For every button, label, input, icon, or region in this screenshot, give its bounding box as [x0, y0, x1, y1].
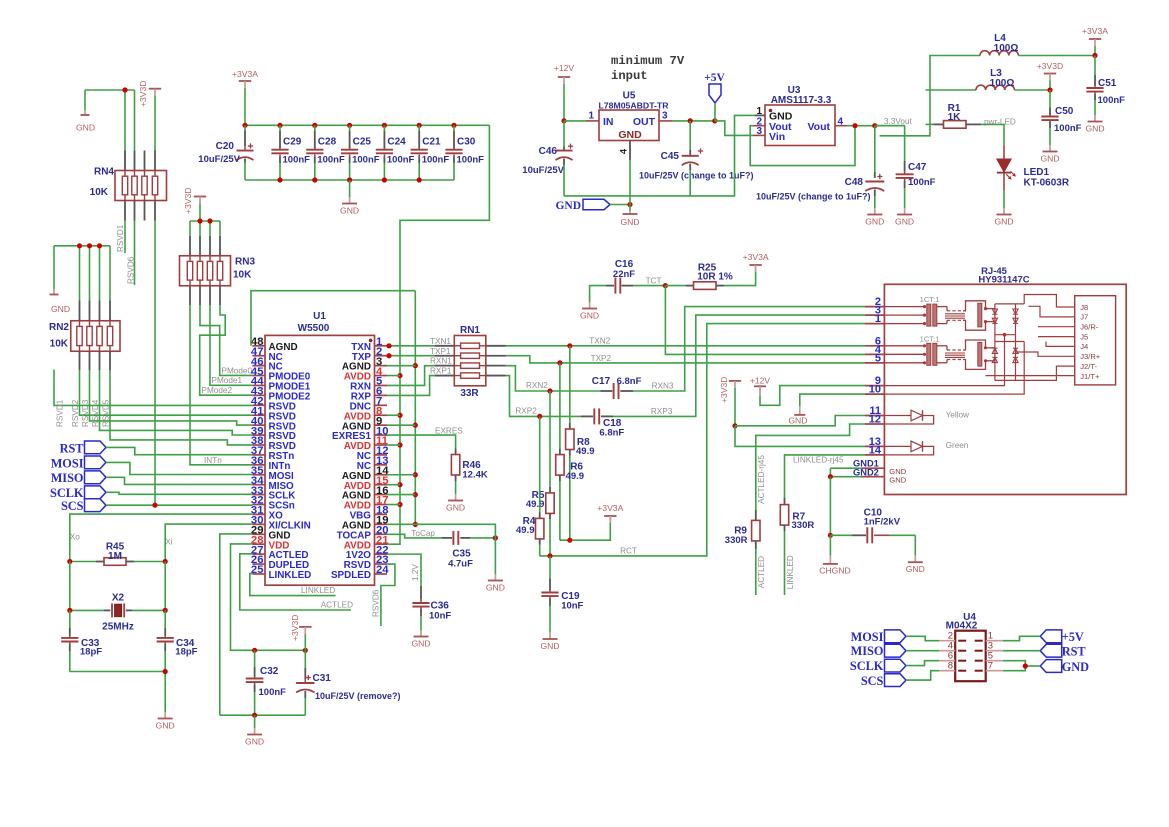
- ground: [799, 406, 801, 408]
- svg-text:330R: 330R: [725, 535, 748, 546]
- svg-text:GND: GND: [540, 641, 559, 651]
- svg-text:U1: U1: [313, 311, 326, 322]
- svg-text:100nF: 100nF: [317, 154, 345, 165]
- svg-text:3: 3: [662, 111, 668, 122]
- svg-text:RSVD6: RSVD6: [372, 589, 381, 617]
- svg-text:+12V: +12V: [554, 63, 575, 73]
- ground CHGND: [829, 535, 831, 555]
- wire +3V3D to pin11: [735, 416, 865, 426]
- junction: [1023, 663, 1028, 668]
- svg-text:Green: Green: [946, 441, 969, 450]
- resistor network RN3: [189, 236, 191, 256]
- svg-text:10uF/25V: 10uF/25V: [198, 154, 240, 165]
- svg-text:RXN2: RXN2: [526, 381, 548, 390]
- svg-text:+12V: +12V: [750, 376, 771, 386]
- flag RST: [1040, 644, 1062, 657]
- svg-text:100nF: 100nF: [283, 154, 311, 165]
- ground: [349, 180, 351, 197]
- svg-text:RST: RST: [60, 441, 85, 455]
- pin 20 TOCAP: [375, 533, 388, 535]
- wire: [69, 562, 71, 611]
- svg-text:49.9: 49.9: [526, 499, 545, 510]
- capacitor C46: [563, 121, 565, 147]
- svg-text:RN3: RN3: [235, 257, 255, 268]
- wire LINKLED-rj45 pin14: [785, 455, 866, 498]
- ground: [494, 574, 496, 581]
- svg-text:RXP3: RXP3: [651, 407, 673, 416]
- svg-text:10nF: 10nF: [561, 600, 583, 611]
- svg-text:RST: RST: [1062, 645, 1087, 659]
- capacitor C33: [69, 610, 71, 628]
- svg-text:GND: GND: [1040, 154, 1059, 164]
- pin 4 AVDD: [375, 375, 388, 377]
- svg-text:3.3Vout: 3.3Vout: [884, 117, 912, 126]
- wire: [906, 671, 939, 680]
- svg-text:1.2V: 1.2V: [411, 564, 420, 581]
- svg-text:7: 7: [988, 661, 993, 672]
- junction: [413, 363, 418, 368]
- wire: [1003, 661, 1026, 671]
- power +3V3A: [604, 515, 616, 517]
- junction: [413, 423, 418, 428]
- wire J5: [1038, 336, 1075, 338]
- pin 8 AVDD: [375, 414, 388, 416]
- wire RN3 top: [190, 220, 220, 222]
- svg-text:RSVD5: RSVD5: [102, 399, 111, 427]
- ground: [1049, 145, 1051, 152]
- wire XI: [165, 524, 252, 561]
- svg-text:GND: GND: [340, 206, 359, 216]
- junction: [627, 202, 632, 207]
- svg-text:4: 4: [619, 149, 629, 154]
- capacitor C24: [382, 123, 387, 128]
- svg-text:TXP2: TXP2: [591, 354, 612, 363]
- svg-text:10K: 10K: [233, 270, 252, 281]
- svg-text:input: input: [611, 69, 648, 83]
- svg-text:minimum 7V: minimum 7V: [611, 54, 685, 68]
- svg-text:1nF/2kV: 1nF/2kV: [864, 517, 901, 528]
- capacitor C29: [277, 123, 282, 128]
- resistor R7: [784, 498, 786, 505]
- junction: [87, 243, 92, 248]
- pin 4: [865, 353, 884, 355]
- svg-text:330R: 330R: [792, 520, 815, 531]
- wire J1: [986, 375, 1075, 377]
- svg-text:18pF: 18pF: [80, 647, 102, 658]
- svg-text:GND: GND: [51, 304, 70, 314]
- svg-text:C45: C45: [661, 151, 680, 162]
- ground: [1094, 115, 1096, 122]
- pin 37 RSTn: [252, 454, 265, 456]
- svg-text:1K: 1K: [948, 112, 962, 123]
- wire PMode1: [210, 305, 252, 385]
- junction: [252, 713, 257, 718]
- junction: [547, 553, 552, 558]
- svg-text:5: 5: [875, 352, 881, 364]
- ground: [420, 630, 422, 637]
- junction: [537, 414, 542, 419]
- svg-text:C24: C24: [387, 137, 406, 148]
- pin 32 SCSn: [252, 504, 265, 506]
- regulator U5 L78M05ABDT-TR: [586, 120, 599, 122]
- capacitor C32: [254, 650, 256, 667]
- svg-text:1CT:1: 1CT:1: [920, 334, 940, 343]
- svg-text:10uF/25V (remove?): 10uF/25V (remove?): [315, 691, 401, 701]
- junction: [397, 502, 402, 507]
- ic U1 W5500: [265, 335, 375, 585]
- pin 3: [865, 314, 884, 316]
- svg-text:RSVD6: RSVD6: [127, 256, 136, 284]
- svg-text:SCLK: SCLK: [50, 486, 84, 500]
- svg-text:RXP2: RXP2: [515, 407, 537, 416]
- capacitor C50: [1049, 90, 1051, 108]
- wire TOCAP: [387, 534, 442, 538]
- svg-text:C32: C32: [260, 666, 279, 677]
- svg-text:12: 12: [869, 414, 881, 426]
- pin 46 NC: [252, 365, 265, 367]
- wire shield top: [1024, 295, 1075, 308]
- wire: [1003, 650, 1040, 652]
- junction: [557, 360, 562, 365]
- resistor R45: [70, 561, 96, 563]
- pin 14: [865, 454, 884, 456]
- pin 11 AVDD: [375, 444, 388, 446]
- wire 3.3Vout rail: [880, 56, 980, 136]
- wire RSVD4: [100, 370, 253, 435]
- wire: [914, 535, 916, 555]
- pin 25 LINKLED: [252, 573, 265, 575]
- svg-text:MOSI: MOSI: [851, 630, 884, 644]
- wire +12V to rj45 pin9: [760, 386, 865, 406]
- pin 9 AGND: [375, 424, 388, 426]
- svg-text:10uF/25V (change to 1uF?): 10uF/25V (change to 1uF?): [756, 192, 871, 202]
- ground: [84, 90, 86, 110]
- capacitor C30: [451, 123, 456, 128]
- svg-text:C25: C25: [353, 137, 372, 148]
- pin 24 SPDLED: [375, 573, 388, 575]
- junction: [397, 442, 402, 447]
- inductor L4: [980, 51, 1018, 56]
- diode LED yellow: [884, 415, 911, 417]
- svg-text:LINKLED: LINKLED: [786, 555, 795, 589]
- svg-text:ACTLED: ACTLED: [321, 601, 353, 610]
- pin 36 INTn: [252, 464, 265, 466]
- wire RXP2: [506, 376, 581, 417]
- pin 1 TXN: [375, 345, 388, 347]
- svg-text:10K: 10K: [90, 187, 109, 198]
- wire RSVD1: [124, 221, 126, 254]
- pin 42 RSVD: [252, 404, 265, 406]
- pin 29 GND: [252, 533, 265, 535]
- regulator U3 AMS1117-3.3: [765, 105, 835, 146]
- junction: [207, 218, 212, 223]
- svg-text:IN: IN: [603, 116, 614, 128]
- svg-text:W5500: W5500: [298, 323, 330, 334]
- svg-text:SCS: SCS: [61, 499, 84, 513]
- svg-text:RSVD4: RSVD4: [91, 399, 100, 427]
- svg-text:22nF: 22nF: [613, 269, 635, 280]
- pin 16 AGND: [375, 494, 388, 496]
- wire RXN2: [506, 366, 601, 391]
- wire SCS pullup: [154, 221, 156, 506]
- pin 6: [865, 345, 884, 347]
- wire PMode2: [200, 305, 253, 395]
- pin 22 1V2O: [375, 553, 388, 555]
- wire ACTLED pin27: [240, 554, 351, 610]
- svg-text:1CT:1: 1CT:1: [920, 295, 940, 304]
- svg-text:+3V3D: +3V3D: [183, 187, 193, 214]
- pin 23 RSVD: [375, 563, 388, 565]
- wire RXN3: [633, 307, 865, 391]
- svg-text:GND: GND: [1085, 124, 1104, 134]
- svg-text:GND: GND: [906, 564, 925, 574]
- wire TCT to rj45 pin4: [665, 286, 865, 355]
- svg-text:Xo: Xo: [70, 532, 80, 541]
- resistor network RN2: [79, 301, 81, 321]
- pin 44 PMODE1: [252, 384, 265, 386]
- junction: [828, 474, 833, 479]
- capacitor C34: [164, 610, 166, 628]
- junction: [547, 388, 552, 393]
- wire RCT: [540, 324, 865, 556]
- junction: [413, 522, 418, 527]
- svg-text:100nF: 100nF: [1054, 123, 1082, 134]
- ground: [589, 302, 591, 309]
- svg-text:PMode1: PMode1: [212, 376, 243, 385]
- junction: [386, 343, 391, 348]
- svg-text:RN1: RN1: [460, 325, 480, 336]
- svg-text:+3V3A: +3V3A: [232, 69, 258, 79]
- wire TXP: [387, 355, 435, 357]
- pin 15 AVDD: [375, 484, 388, 486]
- ground: [874, 208, 876, 215]
- svg-text:C51: C51: [1098, 78, 1117, 89]
- junction: [152, 503, 157, 508]
- wire: [1025, 665, 1040, 667]
- pin 30 XI/CLKIN: [252, 523, 265, 525]
- wire +3V3D to pin13: [735, 426, 865, 447]
- svg-text:GND: GND: [1062, 660, 1089, 674]
- junction: [122, 87, 127, 92]
- wire: [1014, 89, 1050, 91]
- pin 38 RSVD: [252, 444, 265, 446]
- crystal X2: [70, 609, 104, 611]
- svg-text:GND: GND: [994, 217, 1013, 227]
- pin 21 AVDD: [375, 543, 388, 545]
- svg-text:OUT: OUT: [633, 116, 656, 128]
- svg-text:LINKLED: LINKLED: [269, 570, 312, 581]
- svg-text:J3/R+: J3/R+: [1080, 352, 1101, 361]
- pin 1: [865, 323, 884, 325]
- junction: [303, 648, 308, 653]
- pin GND1: [862, 467, 884, 469]
- resistor R4: [539, 416, 541, 512]
- svg-text:J1/T+: J1/T+: [1080, 372, 1100, 381]
- wire GND1: [830, 467, 862, 469]
- inductor L3: [976, 85, 1014, 90]
- pin 12: [865, 423, 884, 425]
- svg-text:1: 1: [588, 111, 594, 122]
- capacitor C21: [417, 123, 422, 128]
- junction: [663, 283, 668, 288]
- svg-text:+3V3A: +3V3A: [1082, 26, 1108, 36]
- wire RST: [106, 447, 252, 454]
- ground: [904, 208, 906, 215]
- junction: [397, 482, 402, 487]
- junction: [1092, 53, 1097, 58]
- svg-text:GND: GND: [555, 200, 581, 212]
- wire chgnd: [829, 477, 831, 536]
- wire TXN: [387, 345, 435, 347]
- wire J3: [1016, 352, 1075, 356]
- wire RSVD2: [80, 370, 253, 415]
- resistor R46: [455, 449, 457, 455]
- pin 13 NC: [375, 464, 388, 466]
- svg-text:+3V3D: +3V3D: [138, 80, 148, 107]
- svg-text:HY931147C: HY931147C: [978, 275, 1029, 286]
- svg-text:RN4: RN4: [94, 167, 114, 178]
- svg-text:1M: 1M: [108, 551, 122, 562]
- svg-text:8: 8: [948, 661, 953, 672]
- svg-text:GND: GND: [76, 123, 95, 133]
- wire J7: [1029, 306, 1075, 317]
- connector U4 M04X2: [955, 631, 986, 682]
- svg-text:RSVD1: RSVD1: [56, 399, 65, 427]
- svg-text:GND: GND: [245, 737, 264, 747]
- wire rj45 pin10: [884, 342, 1024, 395]
- svg-text:10K: 10K: [50, 339, 69, 350]
- svg-text:100nF: 100nF: [908, 177, 936, 188]
- wire INTn: [190, 305, 252, 465]
- svg-text:RXP1: RXP1: [430, 367, 452, 376]
- svg-text:Yellow: Yellow: [946, 410, 969, 419]
- svg-text:+3V3A: +3V3A: [743, 252, 769, 262]
- capacitor C16: [590, 286, 606, 302]
- power +3V3D: [299, 626, 311, 628]
- svg-text:GND: GND: [788, 416, 807, 426]
- junction: [493, 535, 498, 540]
- junction: [397, 413, 402, 418]
- junction: [688, 118, 693, 123]
- wire SCLK: [106, 492, 252, 494]
- wire U3 out: [847, 125, 905, 127]
- wire xtal gnd: [70, 672, 165, 713]
- pin 40 RSVD: [252, 424, 265, 426]
- svg-text:RSVD3: RSVD3: [81, 399, 90, 427]
- pin 39 RSVD: [252, 434, 265, 436]
- svg-text:4.7uF: 4.7uF: [448, 559, 473, 570]
- svg-text:C30: C30: [457, 137, 476, 148]
- svg-text:RXN3: RXN3: [652, 382, 674, 391]
- wire: [906, 636, 939, 640]
- pin 7 DNC: [375, 404, 388, 406]
- capacitor C35: [442, 537, 452, 539]
- wire 3V3A bus top: [245, 124, 489, 126]
- svg-text:J7: J7: [1080, 313, 1088, 322]
- capacitor C25: [347, 123, 352, 128]
- resistor network RN1: [435, 345, 455, 347]
- svg-text:LINKLED: LINKLED: [301, 586, 335, 595]
- svg-text:14: 14: [869, 444, 882, 456]
- junction: [567, 538, 572, 543]
- ground: [549, 633, 551, 640]
- diode network: [994, 304, 996, 381]
- svg-text:C48: C48: [845, 177, 864, 188]
- wire RXN: [387, 366, 435, 386]
- power +3V3D: [729, 380, 741, 382]
- wire AGND to C35: [415, 524, 495, 574]
- svg-text:MISO: MISO: [851, 644, 884, 658]
- svg-text:SPDLED: SPDLED: [331, 570, 371, 581]
- wire U5 out: [672, 120, 715, 122]
- svg-text:J2/T-: J2/T-: [1080, 362, 1097, 371]
- pin 9: [865, 385, 884, 387]
- ground: [164, 712, 166, 719]
- svg-text:24: 24: [376, 564, 389, 576]
- junction: [413, 492, 418, 497]
- wire SCS: [106, 504, 252, 506]
- capacitor C19: [549, 556, 551, 579]
- wire rj45 pin9 ct: [884, 335, 1004, 386]
- wire PMode0: [200, 305, 252, 375]
- svg-text:49.9: 49.9: [516, 525, 535, 536]
- capacitor C45: [689, 121, 691, 150]
- svg-text:GND: GND: [618, 129, 642, 141]
- svg-text:ACTLED: ACTLED: [757, 556, 766, 588]
- svg-text:25: 25: [251, 564, 264, 576]
- svg-text:RSVD2: RSVD2: [71, 399, 80, 427]
- pin 5 RXN: [375, 384, 388, 386]
- resistor R5: [549, 391, 551, 487]
- svg-text:10uF/25V: 10uF/25V: [522, 165, 564, 176]
- svg-text:100nF: 100nF: [352, 154, 380, 165]
- svg-text:6.8nF: 6.8nF: [599, 427, 624, 438]
- svg-text:10uF/25V (change to 1uF?): 10uF/25V (change to 1uF?): [639, 171, 754, 181]
- svg-text:J8: J8: [1080, 303, 1088, 312]
- pin 47 NC: [252, 355, 265, 357]
- junction: [77, 243, 82, 248]
- wire ACTLED-rj45 pin12: [756, 424, 865, 510]
- svg-text:L78M05ABDT-TR: L78M05ABDT-TR: [599, 101, 670, 111]
- flag +5V: [1040, 630, 1062, 643]
- svg-text:SCS: SCS: [861, 674, 884, 688]
- ground: [914, 556, 916, 563]
- svg-text:10nF: 10nF: [429, 611, 451, 622]
- svg-text:49.9: 49.9: [566, 471, 585, 482]
- svg-text:MOSI: MOSI: [51, 456, 84, 470]
- svg-text:ToCap: ToCap: [411, 529, 435, 538]
- svg-text:1: 1: [756, 106, 762, 117]
- junction: [413, 472, 418, 477]
- svg-text:ACTLED-rj45: ACTLED-rj45: [757, 455, 766, 504]
- junction: [712, 118, 717, 123]
- junction: [252, 648, 257, 653]
- svg-text:+5V: +5V: [704, 72, 725, 84]
- wire avdd feed: [400, 125, 489, 545]
- svg-text:Vin: Vin: [769, 131, 785, 143]
- svg-text:RXN1: RXN1: [430, 357, 452, 366]
- svg-text:C20: C20: [216, 141, 235, 152]
- wire VDD pin28: [231, 544, 306, 650]
- resistor R6: [559, 363, 561, 449]
- junction: [567, 343, 572, 348]
- svg-text:GND: GND: [889, 476, 906, 485]
- svg-text:LED1: LED1: [1024, 167, 1050, 178]
- svg-text:10: 10: [869, 384, 881, 396]
- wire gnd bus bottom: [245, 179, 454, 181]
- svg-text:C28: C28: [318, 137, 337, 148]
- wire RSVD1: [54, 370, 252, 406]
